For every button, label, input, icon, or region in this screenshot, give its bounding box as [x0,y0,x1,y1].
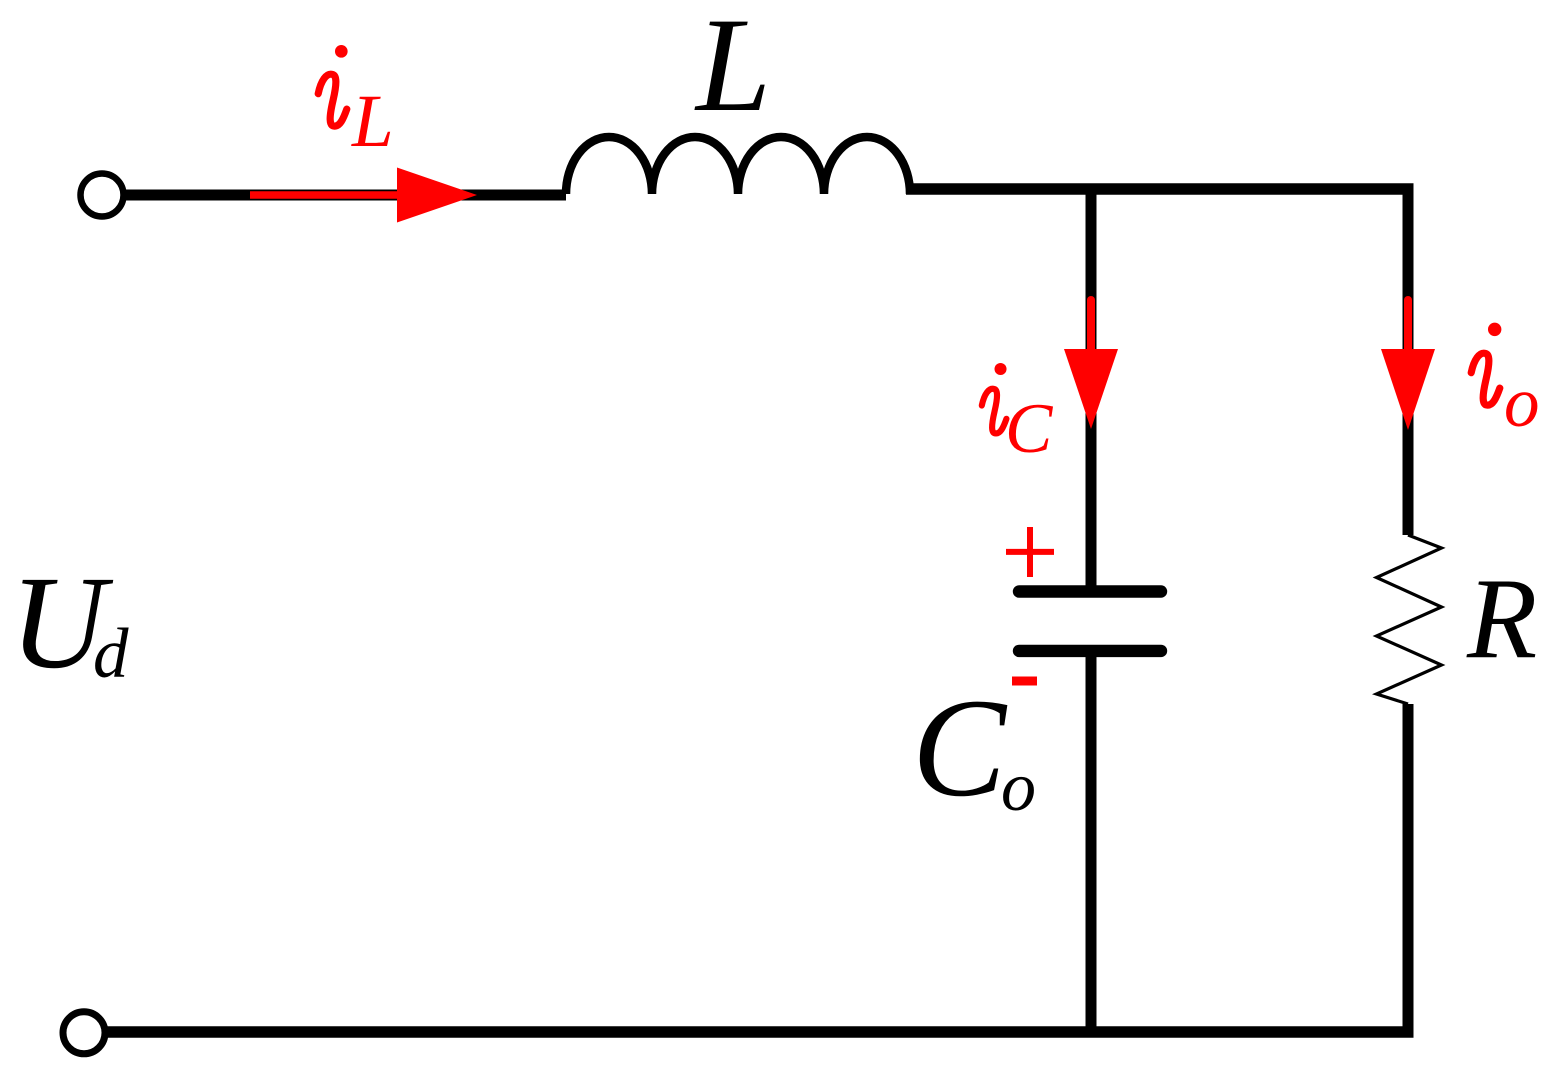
svg-text:o: o [1001,749,1036,826]
svg-text:C: C [1005,390,1054,468]
resistor R [1377,535,1442,704]
wire right branch upper [1403,185,1414,535]
capacitor Co top plate [1019,585,1161,597]
wire top-left horizontal [124,190,566,201]
wire right branch lower [1403,704,1414,1038]
svg-text:L: L [694,0,771,140]
wire capacitor branch lower [1086,651,1097,1032]
terminal bottom-left [63,1012,105,1054]
current arrow io shaft [1404,300,1412,352]
label iC [982,363,1054,468]
svg-text:L: L [351,80,394,163]
svg-text:C: C [912,670,1008,826]
svg-text:o: o [1504,364,1540,442]
capacitor Co bottom plate [1019,645,1161,657]
current arrow iL shaft [250,191,404,199]
svg-text:R: R [1466,555,1537,682]
current arrow iL head [397,168,477,223]
label io [1471,323,1539,442]
wire bottom horizontal [106,1026,1414,1038]
inductor L [566,137,910,194]
polarity minus [1012,677,1037,686]
svg-text:d: d [93,615,129,693]
label iL [318,45,394,163]
current arrow iC shaft [1087,300,1095,352]
terminal top-left [81,174,124,217]
wire capacitor branch upper [1086,184,1097,587]
current arrow io head [1381,349,1435,430]
wire top-right horizontal [906,183,1414,195]
polarity plus [1006,527,1054,577]
current arrow iC head [1064,349,1118,429]
